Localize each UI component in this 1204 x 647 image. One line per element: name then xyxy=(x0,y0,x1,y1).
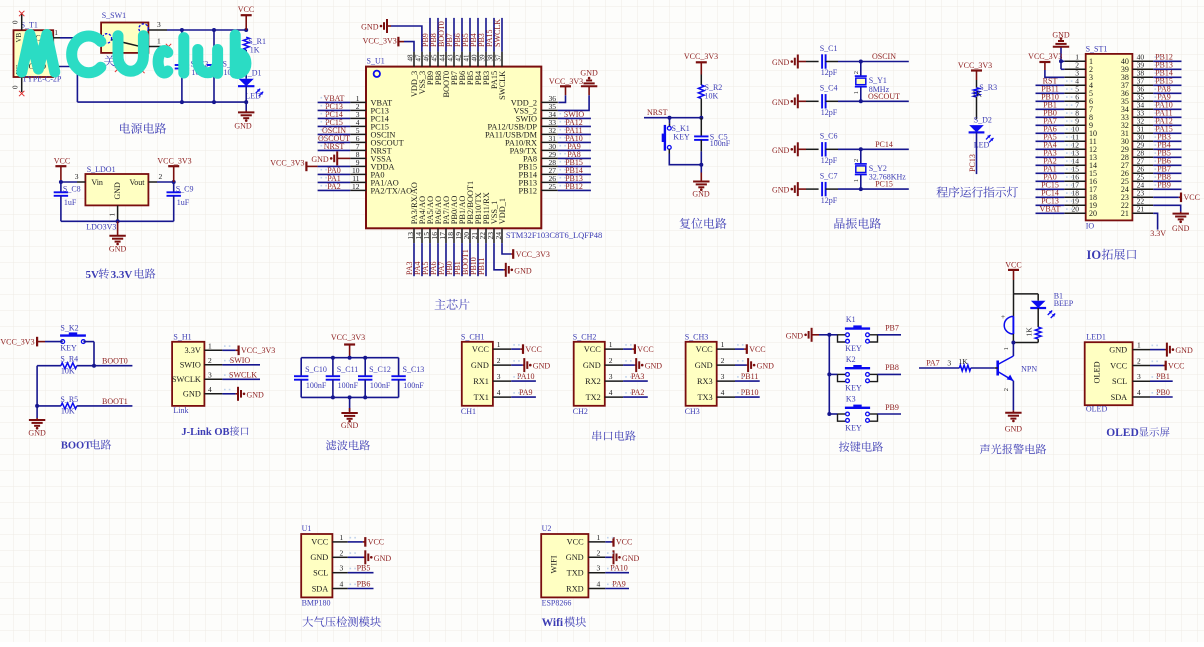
svg-text:SWIO: SWIO xyxy=(180,361,201,370)
svg-text:PA2: PA2 xyxy=(631,388,645,397)
svg-text:VCC: VCC xyxy=(616,538,632,547)
junction dots S_Y1 xyxy=(859,60,863,64)
svg-text:Vin: Vin xyxy=(91,178,103,187)
svg-text:K1: K1 xyxy=(846,315,856,324)
svg-text:RX2: RX2 xyxy=(585,377,601,386)
svg-text:S_C13: S_C13 xyxy=(403,365,425,374)
svg-text:KEY: KEY xyxy=(845,423,862,432)
net label PB6 xyxy=(348,588,374,590)
bottom rail wire xyxy=(77,101,246,103)
pin 1 GND of LDO xyxy=(117,205,119,221)
pin 25 of S_U1 xyxy=(541,189,558,191)
net label PA9 xyxy=(605,588,629,590)
svg-text:GND: GND xyxy=(514,266,532,275)
svg-text:38: 38 xyxy=(487,54,495,62)
svg-text:3: 3 xyxy=(75,172,79,181)
wire switch pin3 to VCC node xyxy=(167,29,246,31)
svg-text:S_C4: S_C4 xyxy=(820,84,838,93)
svg-text:GND: GND xyxy=(533,362,551,371)
svg-text:PB9: PB9 xyxy=(885,403,899,412)
resistor S_R2 10K xyxy=(698,85,704,99)
svg-text:TX3: TX3 xyxy=(697,393,712,402)
pin 40 of S_U1 xyxy=(477,52,479,67)
net label PA11 xyxy=(1153,116,1181,118)
svg-text:OSCIN: OSCIN xyxy=(872,52,896,61)
svg-text:GND: GND xyxy=(786,331,804,340)
switch lever xyxy=(112,40,139,47)
net label SWIO xyxy=(558,117,591,119)
svg-text:46: 46 xyxy=(423,54,431,62)
wire VCC node to LED branch xyxy=(1014,293,1039,295)
svg-text:45: 45 xyxy=(431,54,439,62)
pin 28 of S_U1 xyxy=(541,165,558,167)
pin 8 of S_U1 xyxy=(350,157,366,159)
pin 37 of S_U1 xyxy=(501,52,503,67)
svg-text:PB0: PB0 xyxy=(1156,388,1170,397)
pin 22 of S_U1 xyxy=(485,228,487,243)
power port GND at S_CH1 xyxy=(511,364,523,366)
svg-text:SDA: SDA xyxy=(312,584,329,593)
power port GND at LED1 xyxy=(1150,349,1165,351)
svg-text:OLED: OLED xyxy=(1106,427,1139,439)
resistor S_R1 1K xyxy=(243,37,249,50)
capacitor S_C10 100nF xyxy=(300,358,302,377)
net label PB12 xyxy=(558,189,591,191)
pin 19 of S_ST1 xyxy=(1064,204,1085,206)
pin 37 of S_ST1 xyxy=(1132,84,1153,86)
svg-text:VCC: VCC xyxy=(525,345,541,354)
net label PC13 xyxy=(318,109,351,111)
svg-text:12: 12 xyxy=(352,182,360,191)
svg-text:VCC_3V3: VCC_3V3 xyxy=(0,337,34,346)
svg-text:GND: GND xyxy=(580,69,598,78)
svg-text:SWCLK: SWCLK xyxy=(229,370,257,379)
pin 43 of S_U1 xyxy=(453,52,455,67)
net label PA4 xyxy=(1036,148,1065,150)
pin 40 of S_ST1 xyxy=(1132,60,1153,62)
net label NRST xyxy=(318,149,351,151)
pin 1 of S_SW1 xyxy=(148,46,167,48)
svg-text:GND: GND xyxy=(772,186,790,195)
MCUclub watermark xyxy=(22,35,246,74)
svg-text:1: 1 xyxy=(340,533,344,542)
svg-text:3: 3 xyxy=(597,564,601,573)
svg-text:PC13: PC13 xyxy=(968,154,977,172)
svg-text:Vout: Vout xyxy=(130,178,146,187)
svg-text:PB12: PB12 xyxy=(519,186,537,195)
power port GND at pin 35 VSS_2 xyxy=(558,95,589,110)
svg-text:2: 2 xyxy=(497,356,501,365)
pin 0 top of S_T1 xyxy=(21,13,23,30)
pin 26 of S_U1 xyxy=(541,181,558,183)
switch S_SW1 xyxy=(101,23,148,53)
net label BOOT0 xyxy=(445,18,447,52)
net label PB15 xyxy=(558,165,591,167)
pin 12 of S_ST1 xyxy=(1064,148,1085,150)
net label PC15 xyxy=(318,125,351,127)
svg-text:BOOT: BOOT xyxy=(61,441,91,452)
svg-text:VB: VB xyxy=(15,32,23,42)
pin 48 of S_U1 xyxy=(413,52,415,67)
svg-text:GND: GND xyxy=(374,554,392,563)
net label PA8 xyxy=(1153,92,1181,94)
svg-text:VCC: VCC xyxy=(472,345,490,354)
svg-text:3: 3 xyxy=(721,372,725,381)
svg-text:RX3: RX3 xyxy=(697,377,713,386)
pin 35 of S_U1 xyxy=(541,109,558,111)
svg-text:VCC: VCC xyxy=(368,538,384,547)
svg-text:47: 47 xyxy=(415,54,423,62)
svg-text:BOOT0: BOOT0 xyxy=(102,357,128,366)
capacitor S_C7 12pF xyxy=(806,188,819,190)
svg-text:PB11: PB11 xyxy=(477,258,486,276)
svg-text:KEY: KEY xyxy=(60,344,77,353)
capacitor S_C6 12pF xyxy=(806,148,819,150)
pin 20 of S_U1 xyxy=(469,228,471,243)
net label PB13 xyxy=(1153,68,1181,70)
MCU S_U1 STM32F103C8T6_LQFP48 xyxy=(366,67,541,229)
junction dots filter top xyxy=(331,356,335,360)
pin 17 of S_ST1 xyxy=(1064,188,1085,190)
pin 14 of S_ST1 xyxy=(1064,164,1085,166)
pin 4 of S_ST1 xyxy=(1064,84,1085,86)
net label PB8 xyxy=(437,18,439,52)
svg-text:RX1: RX1 xyxy=(473,377,489,386)
svg-text:0: 0 xyxy=(12,85,20,89)
caption alarm circuit xyxy=(980,444,1046,454)
svg-text:BMP180: BMP180 xyxy=(302,598,331,607)
svg-text:4: 4 xyxy=(721,388,725,397)
svg-text:S_D2: S_D2 xyxy=(974,116,992,125)
caption filter circuit xyxy=(326,440,370,450)
pin 18 of S_ST1 xyxy=(1064,196,1085,198)
capacitor S_C11 100nF xyxy=(332,358,334,377)
pin 0 bottom of S_T1 xyxy=(21,77,23,92)
svg-text:U2: U2 xyxy=(542,524,552,533)
svg-text:CH3: CH3 xyxy=(685,407,700,416)
svg-text:GND: GND xyxy=(311,155,329,164)
pin 20 of S_ST1 xyxy=(1064,212,1085,214)
capacitor S_C9 1uF xyxy=(173,182,175,192)
svg-text:S_U1: S_U1 xyxy=(367,56,385,65)
pin 30 of S_U1 xyxy=(541,149,558,151)
net label PA7 xyxy=(1036,124,1065,126)
svg-text:S_R3: S_R3 xyxy=(979,83,997,92)
capacitor S_C13 100nF xyxy=(398,358,400,377)
power port GND at S_C4 xyxy=(797,94,799,108)
filter bottom rail xyxy=(301,396,398,398)
net label PA5 xyxy=(1036,140,1065,142)
svg-text:PA9: PA9 xyxy=(612,580,626,589)
ground GND reset xyxy=(700,165,702,173)
svg-text:VCC_3V3: VCC_3V3 xyxy=(331,333,365,342)
svg-text:3: 3 xyxy=(497,372,501,381)
caption reset circuit xyxy=(680,218,727,229)
svg-text:1: 1 xyxy=(853,91,860,94)
svg-text:GND: GND xyxy=(772,98,790,107)
svg-text:VCC: VCC xyxy=(311,538,329,547)
svg-text:VCC: VCC xyxy=(567,538,585,547)
svg-text:PC14: PC14 xyxy=(875,140,893,149)
svg-text:1: 1 xyxy=(157,36,161,45)
pin 29 of S_ST1 xyxy=(1132,148,1153,150)
wire T1 pin2 to bottom rail xyxy=(60,67,77,103)
capacitor S_C5 100nF xyxy=(700,118,702,137)
power port GND at pin 23 VSS_1 xyxy=(494,243,504,270)
net label PA0 xyxy=(318,173,351,175)
pin 9 of S_ST1 xyxy=(1064,124,1085,126)
svg-text:2: 2 xyxy=(159,172,163,181)
pin 3 of S_ST1 xyxy=(1064,76,1085,78)
svg-text:PB7: PB7 xyxy=(885,324,899,333)
pin 21 of S_U1 xyxy=(477,228,479,243)
pin 2 of S_ST1 xyxy=(1064,68,1085,70)
svg-text:2: 2 xyxy=(853,159,860,162)
power port VCC at S_CH2 xyxy=(623,348,632,350)
resistor S_R3 1K xyxy=(974,88,980,97)
net label PB15 xyxy=(1153,84,1181,86)
net label PC15 xyxy=(1036,188,1065,190)
svg-text:3.3V: 3.3V xyxy=(1150,229,1166,238)
net label PB14 xyxy=(558,173,591,175)
net label OSCIN xyxy=(318,133,351,135)
net label PB6 xyxy=(461,18,463,52)
net label PB11 xyxy=(485,243,487,276)
svg-text:GND: GND xyxy=(247,390,265,399)
svg-text:SCL: SCL xyxy=(1112,377,1127,386)
ground GND LDO xyxy=(117,221,119,236)
caption pressure module xyxy=(303,616,381,627)
LED in alarm xyxy=(1031,301,1046,308)
pin 10 of S_ST1 xyxy=(1064,132,1085,134)
svg-text:PC15: PC15 xyxy=(875,180,893,189)
net label PB8 xyxy=(1153,180,1181,182)
caption serial circuit xyxy=(592,430,635,440)
pin 33 of S_U1 xyxy=(541,125,558,127)
junction dots LDO xyxy=(59,180,63,184)
svg-text:NPN: NPN xyxy=(1021,364,1037,373)
svg-text:GND: GND xyxy=(310,553,328,562)
power port VCC_3V3 at pin 36 VDD_2 xyxy=(558,95,565,102)
svg-text:VCC: VCC xyxy=(749,345,765,354)
pin 30 of S_ST1 xyxy=(1132,140,1153,142)
pin 7 of S_ST1 xyxy=(1064,108,1085,110)
pin 9 of S_U1 xyxy=(350,165,366,167)
wire key to BOOT0 node xyxy=(93,342,95,366)
net label PC13 xyxy=(1036,204,1065,206)
svg-text:+: + xyxy=(1001,312,1005,321)
net label PA9 xyxy=(511,396,536,398)
junction dots NRST xyxy=(668,116,672,120)
pin 27 of S_ST1 xyxy=(1132,164,1153,166)
net label PA8 xyxy=(558,157,591,159)
junction dot K3 xyxy=(827,412,831,416)
svg-text:2: 2 xyxy=(340,548,344,557)
power port GND at U1 xyxy=(348,556,364,558)
net label PA10 xyxy=(511,380,536,382)
power port GND at U2 xyxy=(605,556,611,558)
net label PA10 xyxy=(605,572,629,574)
svg-text:S_CH3: S_CH3 xyxy=(685,332,709,341)
svg-text:21: 21 xyxy=(1137,205,1145,214)
buzzer B1 xyxy=(1013,294,1015,317)
caption crystal circuit xyxy=(834,218,881,229)
net label PB1 xyxy=(1150,380,1173,382)
resistor S_R4 10K xyxy=(37,365,61,367)
pin 39 of S_ST1 xyxy=(1132,68,1153,70)
pin 6 of S_U1 xyxy=(350,141,366,143)
svg-text:GND: GND xyxy=(645,362,663,371)
pin1 indicator donut xyxy=(374,71,380,77)
pin 11 of S_U1 xyxy=(350,181,366,183)
svg-text:1: 1 xyxy=(1137,341,1141,350)
pin 2 of S_U1 xyxy=(350,109,366,111)
svg-text:SWCLK: SWCLK xyxy=(172,375,201,384)
svg-text:1: 1 xyxy=(597,533,601,542)
connector LED1 OLED xyxy=(1085,342,1133,405)
pin 8 of S_ST1 xyxy=(1064,116,1085,118)
svg-text:PB12: PB12 xyxy=(565,182,583,191)
capacitor S_C4 12pF xyxy=(806,100,819,102)
svg-text:GND: GND xyxy=(566,553,584,562)
svg-text:CH2: CH2 xyxy=(573,407,588,416)
pin 21 of S_ST1 xyxy=(1132,212,1153,214)
svg-text:Wifi: Wifi xyxy=(542,617,564,629)
power port GND keys xyxy=(811,328,813,342)
svg-text:PA2: PA2 xyxy=(327,182,341,191)
svg-text:40: 40 xyxy=(471,54,479,62)
net label PB4 xyxy=(1153,148,1181,150)
net label SWIO xyxy=(222,364,260,366)
LED S_D1 xyxy=(239,79,254,86)
power port GND at S_C6 xyxy=(797,142,799,156)
caption power circuit xyxy=(120,123,166,134)
svg-text:VCC_3V3: VCC_3V3 xyxy=(684,52,718,61)
power port VCC at U1 xyxy=(348,541,363,543)
svg-text:IO: IO xyxy=(1087,248,1102,262)
svg-text:VCC: VCC xyxy=(54,156,70,165)
svg-text:GND: GND xyxy=(28,428,46,437)
capacitor S_C1 12pF xyxy=(806,61,819,63)
caption keys circuit xyxy=(839,441,883,451)
svg-text:GND: GND xyxy=(692,190,710,199)
pin 3 of LDO xyxy=(77,181,85,183)
pin 26 of S_ST1 xyxy=(1132,172,1153,174)
net label OSCOUT xyxy=(318,141,351,143)
crystal S_Y1 8MHz xyxy=(860,62,862,77)
svg-text:PA2/TX/AO: PA2/TX/AO xyxy=(371,186,413,195)
svg-text:10K: 10K xyxy=(61,407,75,416)
svg-text:GND: GND xyxy=(183,390,201,399)
capacitor S_C3 10uF xyxy=(213,30,215,65)
pin 22 of S_ST1 xyxy=(1132,204,1153,206)
svg-text:VCC_3V3: VCC_3V3 xyxy=(958,61,992,70)
svg-text:4: 4 xyxy=(208,385,212,394)
pin 27 of S_U1 xyxy=(541,173,558,175)
svg-text:21: 21 xyxy=(1121,209,1129,218)
junction dot BOOT0 xyxy=(92,364,96,368)
wire LED to GND xyxy=(245,86,247,110)
svg-text:VCC_3V3: VCC_3V3 xyxy=(363,37,397,46)
svg-text:S_C8: S_C8 xyxy=(63,184,81,193)
pin 41 of S_U1 xyxy=(469,52,471,67)
svg-text:S_C1: S_C1 xyxy=(820,44,838,53)
key S_K2 KEY xyxy=(60,334,86,336)
power port VCC_3V3 at pin 24 VDD_1 xyxy=(502,243,511,254)
net label PB0 xyxy=(453,243,455,276)
svg-text:12pF: 12pF xyxy=(821,68,838,77)
net label SWCLK xyxy=(222,378,260,380)
junction dot BOOT1 bus xyxy=(35,404,39,408)
svg-text:100nF: 100nF xyxy=(403,381,424,390)
svg-text:GND: GND xyxy=(341,421,359,430)
svg-text:GND: GND xyxy=(772,146,790,155)
svg-text:VCC_3V3: VCC_3V3 xyxy=(241,346,275,355)
power port GND at S_H1 pin4 xyxy=(222,393,235,395)
svg-text:VCC: VCC xyxy=(1005,260,1021,269)
pin 46 of S_U1 xyxy=(429,52,431,67)
svg-text:2: 2 xyxy=(1137,357,1141,366)
svg-text:VCC_3V3: VCC_3V3 xyxy=(549,77,583,86)
net label PA2 xyxy=(1036,164,1065,166)
svg-text:OLED: OLED xyxy=(1093,361,1102,383)
svg-text:100nF: 100nF xyxy=(338,381,359,390)
net label BOOT1 xyxy=(77,405,133,407)
pin 33 of S_ST1 xyxy=(1132,116,1153,118)
power port GND at S_CH3 xyxy=(735,364,747,366)
svg-text:PA7: PA7 xyxy=(926,359,940,368)
junction dot K2 xyxy=(827,372,831,376)
wire T1 pin1 to switch xyxy=(60,37,101,39)
pin 5 of S_ST1 xyxy=(1064,92,1085,94)
net label PB0 xyxy=(1036,116,1065,118)
svg-text:2: 2 xyxy=(1003,388,1010,391)
net label PA10 xyxy=(1153,108,1181,110)
net label PB10 xyxy=(735,396,760,398)
pin 12 of S_U1 xyxy=(350,189,366,191)
net label PA1 xyxy=(318,181,351,183)
svg-text:CH1: CH1 xyxy=(461,407,476,416)
capacitor S_C12 100nF xyxy=(364,358,366,377)
svg-text:10K: 10K xyxy=(61,366,75,375)
svg-text:SWIO: SWIO xyxy=(230,356,251,365)
pin 3 of S_U1 xyxy=(350,117,366,119)
svg-text:0: 0 xyxy=(12,20,20,24)
svg-text:100nF: 100nF xyxy=(306,381,327,390)
power port VCC at LED1 xyxy=(1150,365,1164,367)
svg-text:VBAT: VBAT xyxy=(1040,205,1061,214)
svg-text:TXD: TXD xyxy=(567,569,584,578)
svg-text:GND: GND xyxy=(772,58,790,67)
svg-text:S_ST1: S_ST1 xyxy=(1086,45,1108,54)
svg-text:GND: GND xyxy=(109,245,127,254)
svg-text:VCC_3V3: VCC_3V3 xyxy=(516,250,550,259)
svg-text:S_LDO1: S_LDO1 xyxy=(87,165,116,174)
net label PB6 xyxy=(1153,164,1181,166)
wire cap to crystal node top xyxy=(838,148,909,150)
pin 24 of S_U1 xyxy=(501,228,503,243)
net label PA0 xyxy=(1036,180,1065,182)
svg-text:GND: GND xyxy=(234,121,252,130)
svg-text:41: 41 xyxy=(463,54,471,62)
svg-text:SWCLK: SWCLK xyxy=(498,71,507,100)
svg-text:GND: GND xyxy=(695,361,713,370)
svg-text:1uF: 1uF xyxy=(64,198,77,207)
key S_K1 KEY xyxy=(669,118,671,124)
svg-text:VCC: VCC xyxy=(1168,361,1184,370)
net label PA3 xyxy=(623,380,648,382)
wire LED to net PC13 xyxy=(976,132,978,174)
